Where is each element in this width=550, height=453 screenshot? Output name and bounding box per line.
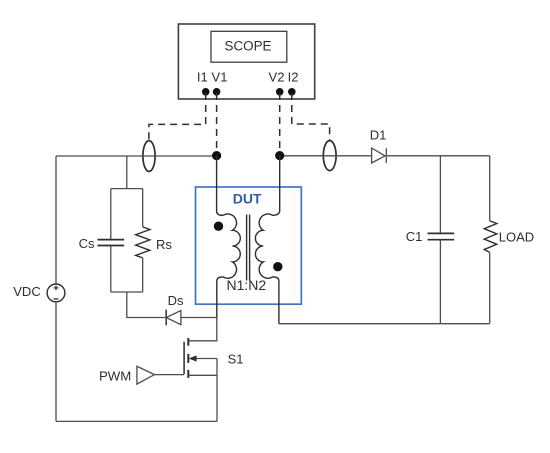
svg-text:C1: C1 [406, 229, 423, 244]
probe lead I1 (dashed) [149, 93, 206, 140]
wire Rs branch upper [142, 189, 144, 227]
scope terminal V1 [213, 88, 221, 96]
wire snubber drop [126, 156, 128, 189]
wire output right rail lower [489, 252, 491, 323]
wire PWM to gate [155, 374, 185, 376]
label Cs [79, 236, 95, 251]
svg-text:D1: D1 [370, 128, 387, 143]
svg-text:LOAD: LOAD [499, 230, 534, 245]
wire source to bottom rail [216, 359, 218, 422]
label I1 [197, 69, 208, 84]
svg-text:N1:N2: N1:N2 [226, 277, 266, 293]
label V2 [269, 69, 285, 84]
current probe CT2 [323, 141, 336, 171]
diode D1 [372, 148, 387, 163]
label N1:N2 [226, 277, 266, 293]
label Ds [168, 293, 184, 308]
wire Ds to drain node [181, 317, 217, 319]
label VDC [13, 284, 40, 299]
wire Cs branch upper [110, 189, 112, 240]
scope terminal I2 [288, 88, 296, 96]
label PWM [99, 368, 131, 383]
label SCOPE [225, 39, 272, 54]
probe lead V1 (dashed) [216, 93, 218, 156]
svg-text:V1: V1 [212, 69, 228, 84]
transformer T1 secondary winding [255, 156, 279, 324]
wire Rs branch lower [142, 258, 144, 292]
wire output right rail upper [489, 156, 491, 221]
svg-text:I2: I2 [288, 69, 299, 84]
svg-text:I1: I1 [197, 69, 208, 84]
wire bottom rail [56, 420, 217, 422]
wire D1 to output [386, 155, 489, 157]
wire left rail upper (VDC top) [55, 156, 57, 284]
svg-text:PWM: PWM [99, 368, 131, 383]
DUT box [196, 187, 302, 304]
wire secondary bottom rail [279, 323, 490, 325]
label I2 [288, 69, 299, 84]
resistor LOAD [484, 221, 497, 253]
current probe CT1 [143, 141, 155, 172]
wire C1 bottom [439, 240, 441, 324]
wire top right rail [280, 155, 372, 157]
wire snubber to Ds [127, 292, 166, 318]
label LOAD [499, 230, 534, 245]
transistor S1 (MOSFET) [184, 338, 217, 378]
capacitor Cs [98, 240, 125, 246]
probe lead V2 (dashed) [279, 93, 281, 156]
transformer T1 primary winding [217, 156, 241, 318]
label D1 [370, 128, 387, 143]
diode Ds [166, 310, 181, 326]
wire left rail lower [55, 302, 57, 422]
wire top left rail [56, 155, 217, 157]
svg-text:S1: S1 [228, 351, 244, 366]
label DUT [233, 191, 262, 207]
PWM buffer [137, 366, 155, 384]
label S1 [228, 351, 244, 366]
label Rs [156, 237, 172, 252]
source VDC [47, 284, 65, 302]
scope terminal V2 [276, 88, 284, 96]
svg-text:Rs: Rs [156, 237, 172, 252]
wire primary bottom to drain [188, 318, 216, 341]
label C1 [406, 229, 423, 244]
capacitor C1 [428, 233, 455, 239]
svg-text:DUT: DUT [233, 191, 262, 207]
svg-text:SCOPE: SCOPE [225, 39, 272, 54]
resistor Rs [136, 227, 150, 258]
svg-text:Ds: Ds [168, 293, 184, 308]
wire Cs branch lower [110, 246, 112, 292]
polarity dot secondary [273, 262, 282, 271]
svg-text:V2: V2 [269, 69, 285, 84]
svg-text:Cs: Cs [79, 236, 95, 251]
svg-text:VDC: VDC [13, 284, 40, 299]
transformer core [247, 215, 250, 281]
probe lead I2 (dashed) [292, 93, 330, 141]
node V2 [275, 151, 284, 160]
wire C1 top [439, 156, 441, 233]
node V1 [212, 151, 221, 160]
scope box U1 [178, 24, 314, 99]
wire snubber bottom bracket [111, 291, 143, 293]
scope display box [211, 31, 287, 62]
polarity dot primary [214, 222, 223, 231]
label V1 [212, 69, 228, 84]
scope terminal I1 [202, 88, 210, 96]
wire snubber top bracket [111, 188, 143, 190]
